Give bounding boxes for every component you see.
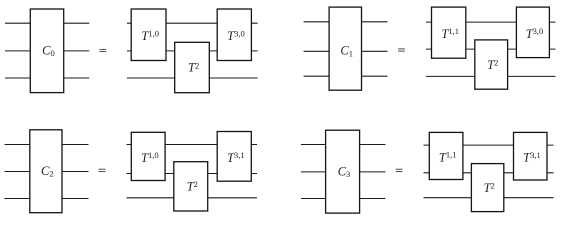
equals sign (Q1) [100, 49, 107, 51]
wire Q1 left-circuit qubit 1 [5, 22, 89, 24]
gate box T^{3,0} (Q1) [217, 9, 251, 61]
wire Q4 left-circuit qubit 3 [301, 198, 386, 200]
gate box T^{1,0} (Q1) [131, 9, 166, 61]
wire Q2 left-circuit qubit 3 [304, 75, 388, 77]
wire Q3 right-circuit qubit 3 [127, 197, 258, 199]
wire Q1 left-circuit qubit 3 [5, 77, 89, 79]
gate box T^2 (Q2) [475, 40, 508, 89]
wire Q4 right-circuit qubit 1 [424, 144, 554, 146]
gate box T^2 (Q1) [175, 42, 210, 92]
equals sign (Q3) [99, 169, 106, 171]
gate box T^2 (Q4) [471, 164, 503, 212]
gate box C3 (Q4) [326, 130, 360, 213]
gate box T^{1,1} (Q2) [432, 7, 466, 58]
gate box C1 (Q2) [329, 7, 361, 90]
wire Q1 right-circuit qubit 2 [127, 50, 258, 52]
gate box T^{1,0} (Q3) [131, 132, 165, 180]
gate box C0 (Q1) [30, 9, 63, 93]
gate box C2 (Q3) [30, 130, 62, 213]
gate box T^{3,1} (Q3) [217, 132, 251, 182]
wire Q4 right-circuit qubit 2 [424, 172, 554, 174]
wire Q4 left-circuit qubit 2 [301, 171, 386, 173]
wire Q1 left-circuit qubit 2 [5, 50, 89, 52]
wire Q2 left-circuit qubit 1 [304, 21, 388, 23]
equals sign (Q2) [398, 49, 405, 51]
wire Q2 right-circuit qubit 3 [426, 75, 556, 77]
wire Q4 left-circuit qubit 1 [301, 144, 386, 146]
wire Q3 left-circuit qubit 1 [5, 144, 89, 146]
equals sign (Q4) [396, 169, 403, 171]
wire Q3 left-circuit qubit 3 [5, 198, 89, 200]
wire Q3 right-circuit qubit 2 [127, 173, 258, 175]
wire Q1 right-circuit qubit 3 [127, 77, 258, 79]
gate box T^{1,1} (Q4) [429, 132, 463, 179]
wire Q2 right-circuit qubit 2 [426, 48, 556, 50]
gate box T^2 (Q3) [174, 162, 208, 211]
wire Q2 right-circuit qubit 1 [426, 21, 556, 23]
gate box T^{3,0} (Q2) [516, 7, 549, 58]
wire Q1 right-circuit qubit 1 [127, 22, 258, 24]
gate box T^{3,1} (Q4) [514, 132, 548, 180]
wire Q4 right-circuit qubit 3 [424, 197, 554, 199]
wire Q2 left-circuit qubit 2 [304, 50, 388, 52]
wire Q3 right-circuit qubit 1 [127, 144, 258, 146]
wire Q3 left-circuit qubit 2 [5, 171, 89, 173]
